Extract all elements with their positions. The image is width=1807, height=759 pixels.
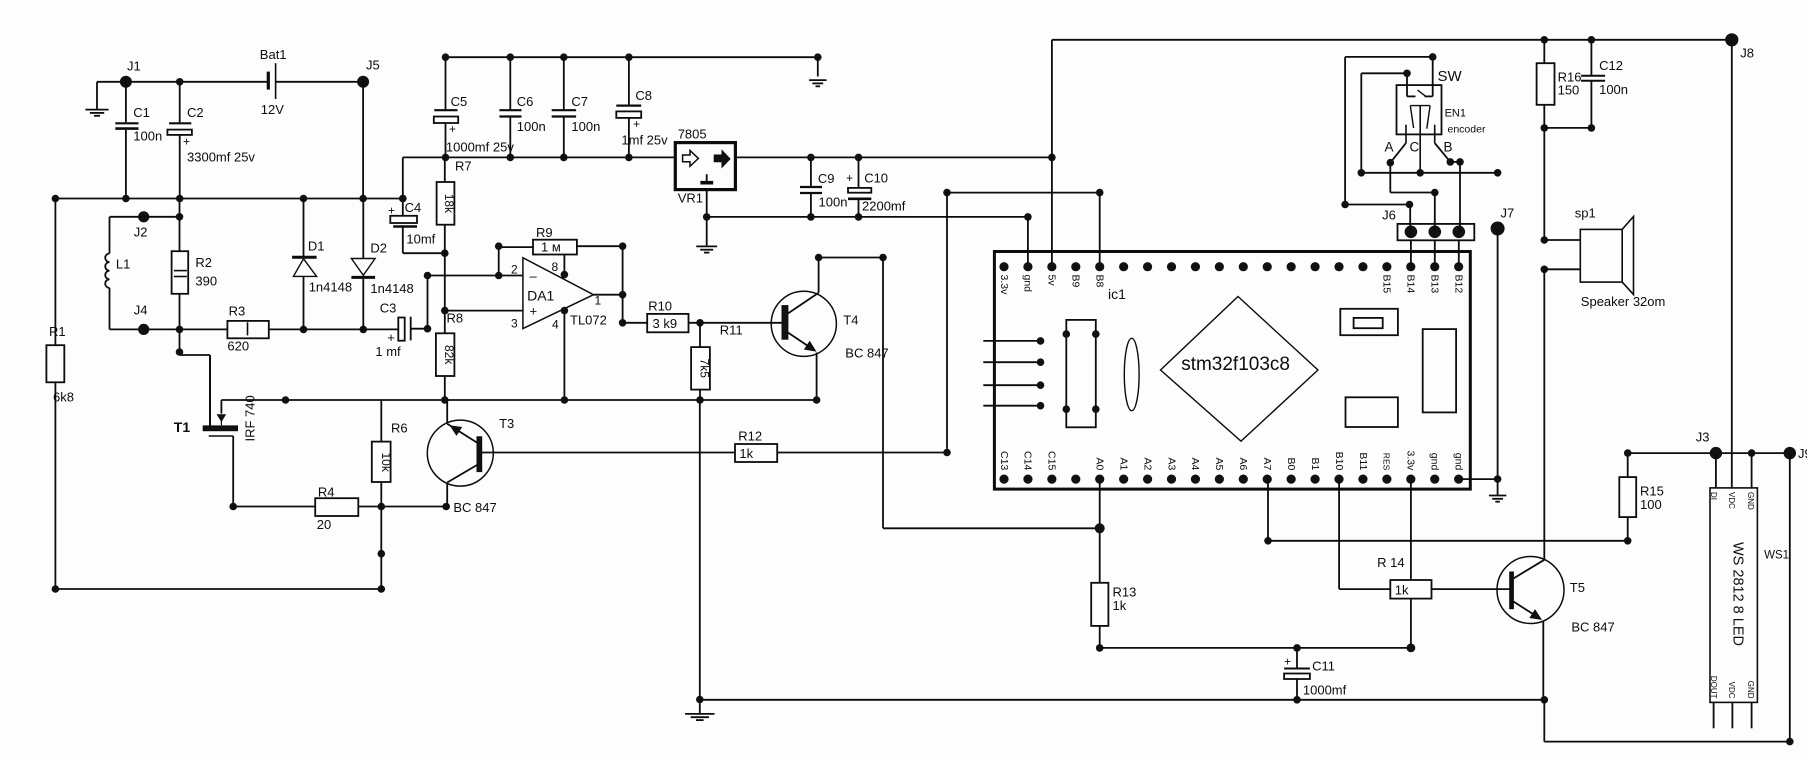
svg-text:1000mf 25v: 1000mf 25v bbox=[446, 140, 514, 155]
svg-text:J5: J5 bbox=[366, 58, 380, 73]
svg-text:6k8: 6k8 bbox=[53, 390, 74, 405]
svg-text:R8: R8 bbox=[447, 311, 464, 326]
svg-text:IRF 740: IRF 740 bbox=[243, 395, 258, 441]
svg-text:8: 8 bbox=[552, 260, 559, 274]
svg-text:R2: R2 bbox=[195, 255, 212, 270]
svg-text:C9: C9 bbox=[818, 171, 835, 186]
svg-text:A4: A4 bbox=[1189, 457, 1201, 470]
svg-text:A3: A3 bbox=[1165, 457, 1177, 470]
svg-text:1k: 1k bbox=[1395, 583, 1409, 598]
svg-text:12V: 12V bbox=[261, 102, 284, 117]
svg-text:+: + bbox=[633, 117, 640, 131]
svg-text:C1: C1 bbox=[133, 105, 150, 120]
svg-text:J3: J3 bbox=[1696, 430, 1710, 445]
svg-text:J9: J9 bbox=[1798, 446, 1807, 461]
svg-text:B1: B1 bbox=[1309, 457, 1321, 470]
svg-text:RES: RES bbox=[1382, 453, 1392, 471]
svg-text:T1: T1 bbox=[174, 419, 191, 435]
svg-text:encoder: encoder bbox=[1448, 124, 1486, 136]
svg-text:GND: GND bbox=[1746, 681, 1755, 699]
svg-text:R4: R4 bbox=[318, 485, 335, 500]
svg-text:B9: B9 bbox=[1070, 275, 1082, 288]
svg-text:SW: SW bbox=[1438, 68, 1463, 85]
svg-text:DA1: DA1 bbox=[527, 288, 554, 304]
svg-text:C: C bbox=[1410, 140, 1420, 155]
svg-text:A5: A5 bbox=[1213, 457, 1225, 470]
svg-text:3: 3 bbox=[511, 317, 518, 331]
svg-text:T3: T3 bbox=[499, 416, 514, 431]
svg-text:82k: 82k bbox=[442, 345, 456, 365]
svg-text:B0: B0 bbox=[1285, 457, 1297, 470]
svg-text:WS 2812 8 LED: WS 2812 8 LED bbox=[1730, 542, 1746, 646]
svg-text:C4: C4 bbox=[405, 200, 422, 215]
svg-text:100n: 100n bbox=[571, 119, 600, 134]
svg-text:gnd: gnd bbox=[1452, 453, 1464, 471]
svg-text:TL072: TL072 bbox=[570, 313, 607, 328]
svg-text:R3: R3 bbox=[229, 304, 246, 319]
svg-text:A0: A0 bbox=[1094, 457, 1106, 470]
svg-text:390: 390 bbox=[195, 274, 217, 289]
svg-text:VDC: VDC bbox=[1727, 682, 1736, 699]
svg-text:C8: C8 bbox=[635, 88, 652, 103]
svg-text:+: + bbox=[183, 135, 190, 149]
svg-text:100n: 100n bbox=[1599, 82, 1628, 97]
svg-text:D1: D1 bbox=[308, 239, 325, 254]
svg-text:4: 4 bbox=[552, 318, 559, 332]
svg-text:C15: C15 bbox=[1046, 451, 1058, 470]
svg-text:C10: C10 bbox=[864, 171, 888, 186]
svg-text:R9: R9 bbox=[536, 225, 553, 240]
svg-text:100: 100 bbox=[1640, 497, 1662, 512]
svg-text:L1: L1 bbox=[116, 257, 130, 272]
svg-text:1000mf: 1000mf bbox=[1303, 683, 1347, 698]
svg-text:VR1: VR1 bbox=[678, 191, 703, 206]
svg-text:+: + bbox=[846, 171, 853, 185]
svg-text:1n4148: 1n4148 bbox=[370, 281, 413, 296]
svg-text:J7: J7 bbox=[1501, 206, 1515, 221]
svg-text:150: 150 bbox=[1558, 83, 1580, 98]
svg-text:A6: A6 bbox=[1237, 457, 1249, 470]
svg-text:3300mf 25v: 3300mf 25v bbox=[187, 150, 255, 165]
svg-text:1 м: 1 м bbox=[541, 240, 561, 255]
svg-text:R10: R10 bbox=[648, 299, 672, 314]
svg-text:620: 620 bbox=[227, 339, 249, 354]
svg-text:B11: B11 bbox=[1357, 452, 1369, 470]
svg-text:BC 847: BC 847 bbox=[1571, 620, 1614, 635]
svg-text:J4: J4 bbox=[134, 303, 148, 318]
svg-text:B14: B14 bbox=[1405, 275, 1417, 294]
svg-text:R7: R7 bbox=[455, 159, 472, 174]
svg-text:gnd: gnd bbox=[1429, 453, 1441, 471]
svg-text:3 k9: 3 k9 bbox=[653, 316, 678, 331]
svg-text:+: + bbox=[387, 330, 395, 345]
svg-text:DI: DI bbox=[1709, 492, 1718, 500]
svg-text:+: + bbox=[1284, 655, 1291, 669]
svg-text:R6: R6 bbox=[391, 421, 408, 436]
svg-text:+: + bbox=[449, 122, 456, 136]
svg-text:B15: B15 bbox=[1381, 275, 1393, 294]
svg-text:–: – bbox=[530, 269, 538, 284]
svg-text:D2: D2 bbox=[370, 241, 387, 256]
svg-text:ic1: ic1 bbox=[1108, 286, 1126, 302]
svg-text:10k: 10k bbox=[379, 453, 393, 473]
svg-text:5v: 5v bbox=[1046, 275, 1058, 287]
svg-text:1mf 25v: 1mf 25v bbox=[621, 133, 668, 148]
svg-text:BC 847: BC 847 bbox=[453, 500, 496, 515]
svg-text:20: 20 bbox=[317, 517, 331, 532]
svg-text:J1: J1 bbox=[127, 59, 141, 74]
svg-text:B: B bbox=[1444, 140, 1453, 155]
svg-text:1k: 1k bbox=[1113, 598, 1127, 613]
svg-text:Speaker 32om: Speaker 32om bbox=[1581, 294, 1666, 309]
svg-text:gnd: gnd bbox=[1022, 275, 1034, 293]
svg-text:100n: 100n bbox=[517, 119, 546, 134]
svg-text:stm32f103c8: stm32f103c8 bbox=[1181, 354, 1290, 375]
svg-text:sp1: sp1 bbox=[1575, 206, 1596, 221]
svg-text:A: A bbox=[1385, 140, 1394, 155]
svg-text:R1: R1 bbox=[49, 324, 66, 339]
svg-text:GND: GND bbox=[1746, 492, 1755, 510]
svg-text:DOUT: DOUT bbox=[1709, 676, 1718, 699]
svg-text:R12: R12 bbox=[738, 429, 762, 444]
svg-text:B10: B10 bbox=[1333, 452, 1345, 471]
svg-text:10mf: 10mf bbox=[406, 232, 435, 247]
svg-text:B8: B8 bbox=[1094, 275, 1106, 288]
svg-text:EN1: EN1 bbox=[1445, 108, 1466, 120]
svg-text:100n: 100n bbox=[819, 195, 848, 210]
svg-text:J6: J6 bbox=[1382, 208, 1396, 223]
svg-text:100n: 100n bbox=[133, 129, 162, 144]
svg-text:7k5: 7k5 bbox=[698, 359, 712, 379]
svg-text:3.3v: 3.3v bbox=[1405, 450, 1417, 471]
svg-text:B12: B12 bbox=[1452, 275, 1464, 294]
svg-text:C12: C12 bbox=[1599, 58, 1623, 73]
svg-text:T4: T4 bbox=[843, 313, 858, 328]
svg-text:J8: J8 bbox=[1740, 46, 1754, 61]
svg-text:18k: 18k bbox=[442, 194, 456, 214]
svg-text:C13: C13 bbox=[998, 451, 1010, 470]
svg-text:T5: T5 bbox=[1570, 580, 1585, 595]
svg-text:C3: C3 bbox=[380, 301, 397, 316]
svg-text:A2: A2 bbox=[1141, 457, 1153, 470]
svg-text:7805: 7805 bbox=[678, 127, 707, 142]
svg-text:VDC: VDC bbox=[1727, 492, 1736, 509]
svg-text:C7: C7 bbox=[571, 94, 588, 109]
svg-text:1 mf: 1 mf bbox=[375, 344, 401, 359]
svg-text:B13: B13 bbox=[1429, 275, 1441, 294]
svg-text:R 14: R 14 bbox=[1377, 555, 1404, 570]
svg-text:3.3v: 3.3v bbox=[998, 275, 1010, 296]
svg-text:C11: C11 bbox=[1312, 659, 1335, 674]
svg-text:1n4148: 1n4148 bbox=[309, 280, 352, 295]
svg-text:+: + bbox=[530, 304, 538, 319]
svg-text:C14: C14 bbox=[1022, 451, 1034, 470]
svg-text:J2: J2 bbox=[134, 225, 148, 240]
svg-text:C6: C6 bbox=[517, 94, 534, 109]
svg-text:WS1: WS1 bbox=[1764, 550, 1789, 562]
svg-text:R11: R11 bbox=[720, 323, 743, 338]
svg-text:Bat1: Bat1 bbox=[260, 47, 287, 62]
svg-text:A1: A1 bbox=[1117, 457, 1129, 470]
svg-text:A7: A7 bbox=[1261, 457, 1273, 470]
svg-text:1k: 1k bbox=[739, 446, 753, 461]
svg-text:2: 2 bbox=[511, 263, 518, 277]
svg-text:C5: C5 bbox=[451, 94, 468, 109]
svg-text:2200mf: 2200mf bbox=[862, 199, 906, 214]
svg-text:C2: C2 bbox=[187, 105, 204, 120]
